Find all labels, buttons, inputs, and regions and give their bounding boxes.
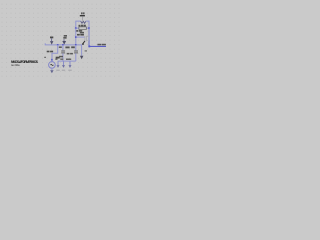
ground net text	[85, 50, 87, 51]
node junction dot gate	[75, 36, 77, 38]
power flag 5V bar	[80, 15, 85, 16]
V1 minus tick	[44, 57, 46, 58]
node junction dot rail x75.8	[75, 44, 77, 46]
transistor Q1 channel bar	[85, 36, 87, 41]
V1 label text	[47, 51, 50, 53]
wire resistor row left stub	[76, 27, 79, 29]
capacitor C1 value text	[59, 56, 63, 58]
transistor Q1 source stub	[86, 40, 89, 42]
wire OUT	[89, 45, 106, 47]
transistor Q1 source arrow	[82, 41, 85, 45]
node OUT junction dot	[88, 46, 90, 48]
resistor R (zigzag in top branch)	[81, 21, 86, 23]
labels above bus	[55, 59, 57, 60]
wire ground rail	[45, 43, 81, 56]
resistor R2 body (box)	[79, 27, 86, 30]
wire bottom bus	[58, 60, 76, 62]
V1 value text	[56, 57, 60, 59]
resistor value text 1.5K	[75, 30, 78, 32]
ground arrow 2	[63, 61, 65, 65]
supply flag arrow (x64)	[63, 39, 65, 41]
supply flag IN arrow	[51, 38, 53, 41]
transistor Q1 gate bar	[84, 36, 86, 41]
ground texts below arrows	[56, 70, 59, 71]
wire resistor row right stub	[86, 27, 89, 29]
wire source branch (Z path)	[52, 45, 58, 62]
wire V1 bottom	[51, 68, 53, 70]
transistor Q1 drain stub	[86, 35, 89, 37]
voltage source V1 tilde	[51, 64, 54, 65]
ground arrow under V1	[50, 70, 53, 73]
svg-text:rev 02a: rev 02a	[11, 63, 20, 67]
voltage source V1 circle	[49, 62, 56, 69]
wire top-right segment	[86, 21, 89, 28]
power flag stem	[82, 16, 84, 20]
wire left vertical (bias rail)	[75, 28, 77, 45]
node OUT label	[97, 44, 101, 46]
capacitor C2 name text	[71, 46, 75, 48]
resistor value text	[79, 25, 81, 27]
capacitor C1 plates	[61, 50, 65, 53]
capacitor C2 plates	[74, 50, 78, 53]
net label text (x64) line2	[63, 37, 66, 39]
node dot on source stem	[51, 59, 53, 61]
capacitor C1 name text	[59, 46, 62, 48]
node junction dot rail x57.7	[57, 44, 59, 46]
wire gate stub	[76, 36, 85, 38]
capacitor C2 value text	[67, 53, 70, 55]
capacitor C1 top wire	[62, 45, 64, 51]
ground symbol (emitter)	[80, 56, 84, 60]
ground arrow 1	[57, 61, 59, 65]
supply flag IN text	[50, 37, 53, 39]
power flag 5V label	[81, 12, 83, 14]
transistor Q1 name text	[77, 34, 80, 36]
node junction dot left	[75, 27, 77, 29]
node junction dot rail x62.9	[62, 44, 64, 46]
capacitor C1 bottom wire	[62, 53, 64, 61]
capacitor C2 bottom wire	[75, 53, 77, 61]
label text 50R	[80, 32, 84, 34]
wire right vertical (drain)	[88, 28, 90, 40]
capacitor C2 top wire	[75, 45, 77, 51]
node junction dot right	[88, 27, 90, 29]
ground arrow 3	[69, 61, 71, 65]
wire top-left segment	[76, 21, 81, 28]
net label text (x64) line1	[64, 35, 67, 37]
